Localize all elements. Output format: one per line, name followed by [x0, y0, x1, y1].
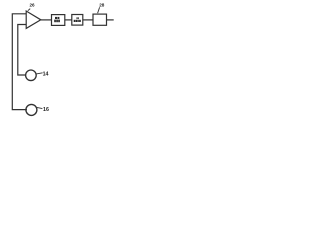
- wire box1 to box2: [65, 19, 72, 21]
- box2 text line 1: [77, 17, 78, 19]
- leader line for label 16: [37, 107, 43, 108]
- wire bottom input to amplifier: [18, 25, 27, 76]
- microphone circle 16: [26, 104, 37, 115]
- wire amplifier output to box1: [41, 19, 52, 21]
- wire top input to amplifier: [12, 14, 27, 110]
- block box3 (28): [93, 14, 107, 25]
- block box2: [72, 15, 83, 26]
- wire output from box3: [107, 19, 114, 21]
- svg-text:14: 14: [43, 71, 49, 77]
- leader line for label 26: [28, 9, 30, 11]
- block box1: [52, 15, 65, 26]
- svg-text:26: 26: [30, 3, 36, 8]
- op-amp U26 amplifier triangle: [26, 11, 41, 28]
- wire box2 to box3: [83, 19, 93, 21]
- microphone circle 14: [26, 70, 37, 81]
- leader line for label 14: [36, 73, 42, 74]
- leader line for label 28: [98, 7, 100, 13]
- box2 text line 2: [74, 20, 76, 22]
- svg-text:28: 28: [99, 3, 105, 8]
- box1 text line 1: [55, 17, 57, 19]
- svg-text:16: 16: [43, 107, 49, 113]
- box1 text line 2: [54, 20, 56, 23]
